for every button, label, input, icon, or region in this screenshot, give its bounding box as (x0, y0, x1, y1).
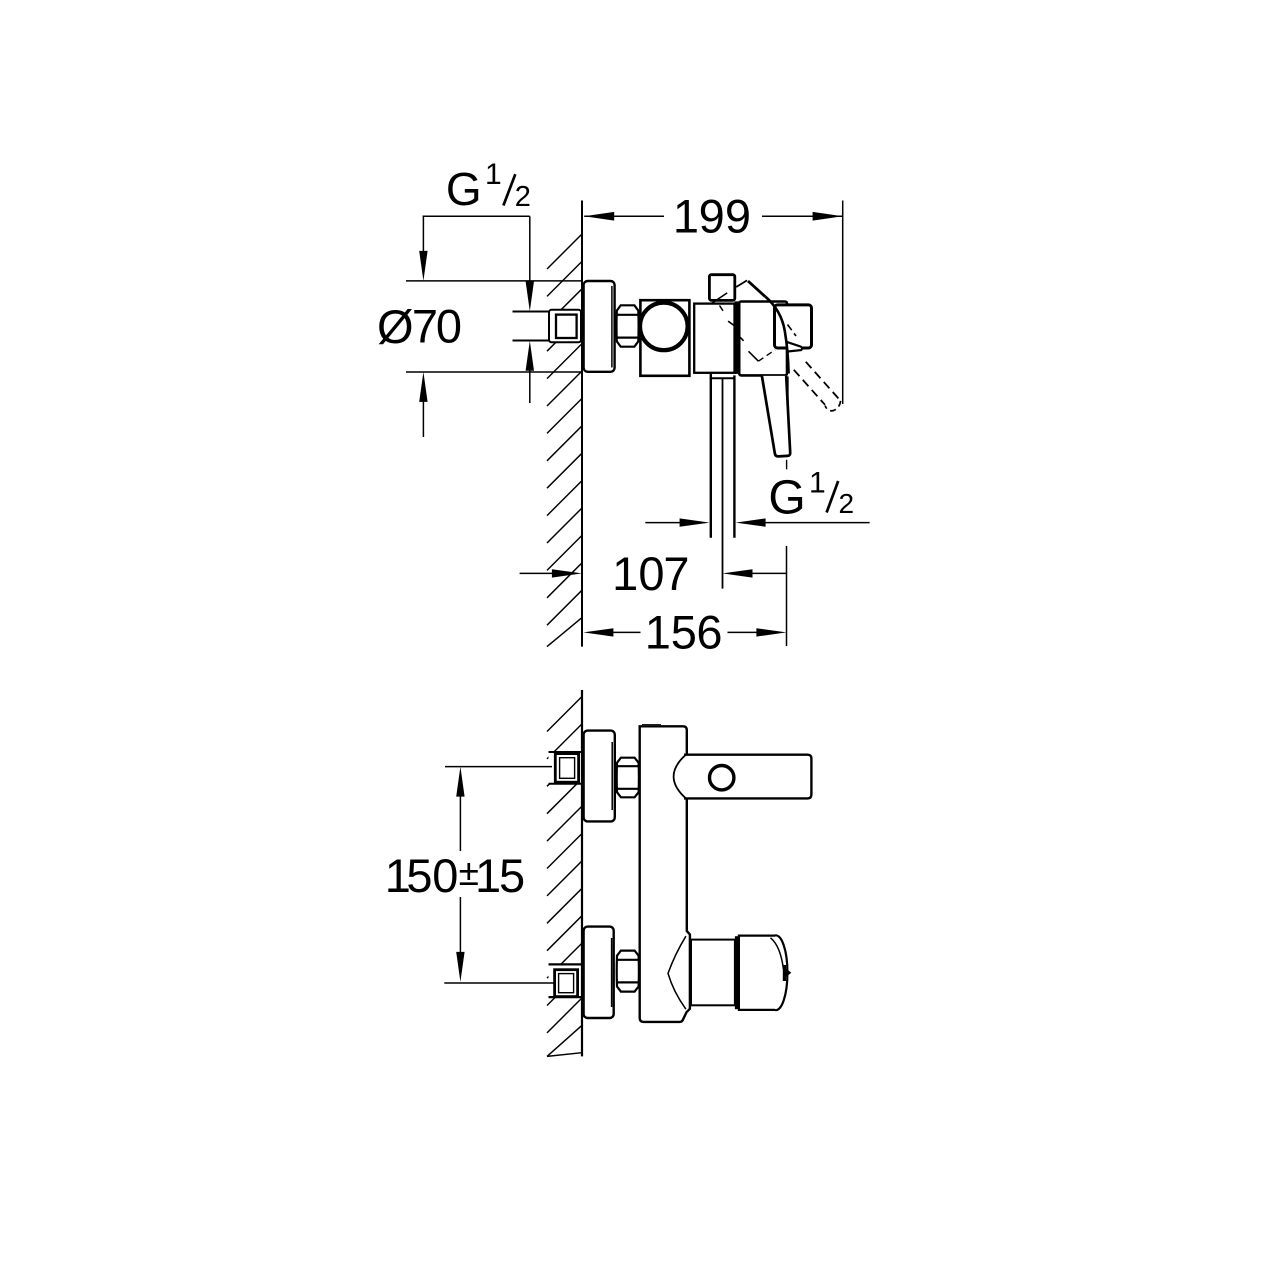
svg-text:G: G (446, 163, 482, 215)
svg-text:5: 5 (499, 849, 525, 902)
lever knuckle (775, 305, 812, 348)
extension line escutcheon bottom (O70) (406, 371, 583, 373)
svg-text:1: 1 (475, 849, 501, 902)
wall hatching (bottom view) (547, 697, 582, 1057)
svg-text:5: 5 (671, 605, 697, 658)
dashed lever open-position outline (794, 362, 841, 411)
column top edge detail (642, 724, 661, 726)
dashed lever mid-position marks (728, 321, 796, 361)
extension line escutcheon top (O70) (406, 280, 583, 282)
lower escutcheon (bottom view) (584, 927, 614, 1018)
outlet pipe right wall (733, 375, 735, 537)
svg-text:9: 9 (699, 189, 725, 242)
dashed lever raised-position mark over cap (712, 293, 727, 311)
dim 150+-15 text (385, 849, 525, 902)
dashed lever raised-position peak (736, 280, 765, 296)
outlet pipe collar (710, 377, 735, 379)
svg-text:9: 9 (725, 189, 751, 242)
outlet junction ring (black) (735, 936, 739, 1009)
outlet cylinder small (691, 940, 735, 1006)
dim 107 left arrow (520, 572, 553, 574)
svg-text:0: 0 (432, 849, 458, 902)
outlet pipe left wall (710, 374, 712, 538)
dashed centerline below handle (786, 460, 788, 470)
lever arm concave junction arc (674, 754, 687, 800)
dim G1/2 top bar (423, 215, 530, 217)
dim G1/2 top label (446, 158, 531, 215)
ball joint housing (640, 300, 689, 376)
dim G1/2 pipe lower arrow (529, 369, 531, 403)
escutcheon face line (611, 286, 613, 368)
lower hex nut (bottom view) (617, 951, 639, 992)
outlet end cylinder with elliptic face (739, 935, 788, 1010)
escutcheon flange (top view) (584, 281, 615, 372)
dim 199 right extension line (842, 201, 844, 405)
dim O70 lower arrow (422, 400, 424, 437)
svg-text:0: 0 (638, 547, 664, 600)
svg-text:Ø: Ø (377, 300, 414, 353)
lever handle (closed position) (762, 376, 790, 457)
mixer body middle section (694, 304, 734, 373)
svg-text:G: G (768, 472, 805, 525)
dim 156 right extension line (786, 546, 788, 646)
lever cap section (739, 302, 787, 376)
inlet pipe behind wall (top view) (513, 312, 550, 341)
dim G1/2 bottom label (768, 466, 854, 524)
dim O70 upper arrow (422, 216, 424, 252)
lever tip wedge (786, 342, 802, 352)
dim 107 right arrow (751, 572, 786, 574)
svg-text:1: 1 (645, 605, 671, 658)
svg-text:1: 1 (809, 466, 826, 499)
connection hex nut (top view) (617, 305, 639, 346)
svg-text:2: 2 (515, 181, 531, 213)
dim G1/2 pipe upper arrow (529, 216, 531, 283)
dim 150+-15 (445, 766, 552, 768)
upper escutcheon (bottom view) (584, 731, 615, 822)
dim 199 text (673, 189, 751, 242)
svg-text:0: 0 (436, 300, 462, 353)
svg-text:1: 1 (673, 189, 699, 242)
wall hatching (top view) (547, 234, 582, 647)
svg-text:2: 2 (839, 488, 855, 519)
outlet pipe centerline (722, 379, 724, 589)
upper hex nut (bottom view) (617, 758, 639, 798)
lever arm hole (710, 766, 734, 790)
svg-text:1: 1 (485, 158, 502, 191)
lower S-union stub (549, 964, 583, 997)
thin edge line below cap corner (787, 377, 789, 418)
lever arm bar (bottom view) (684, 755, 811, 799)
outlet nipple (783, 965, 786, 981)
mixer body column (bottom view) (640, 726, 690, 1022)
fitting inner square (556, 315, 577, 338)
dim 107 text (612, 547, 689, 600)
wall line (top view) (581, 201, 583, 647)
lever motion arc (765, 297, 788, 374)
dim 156 line (612, 631, 641, 633)
cartridge cap square (709, 275, 734, 301)
svg-text:7: 7 (412, 300, 438, 353)
svg-text:6: 6 (696, 605, 722, 658)
svg-text:1: 1 (612, 547, 638, 600)
joint ring (black bar) (735, 301, 739, 374)
svg-text:7: 7 (663, 547, 689, 600)
upper S-union stub (549, 752, 583, 784)
svg-text:5: 5 (406, 849, 432, 902)
dim G1/2 bottom line (645, 522, 681, 524)
dim O70 text (377, 300, 462, 353)
wall line (bottom view) (581, 690, 583, 1056)
ball joint sphere (640, 303, 688, 351)
dim 156 text (645, 605, 723, 658)
outlet cone lines (668, 936, 686, 1009)
dim 199 line (584, 215, 664, 217)
wall fitting socket (top view) (549, 310, 581, 343)
